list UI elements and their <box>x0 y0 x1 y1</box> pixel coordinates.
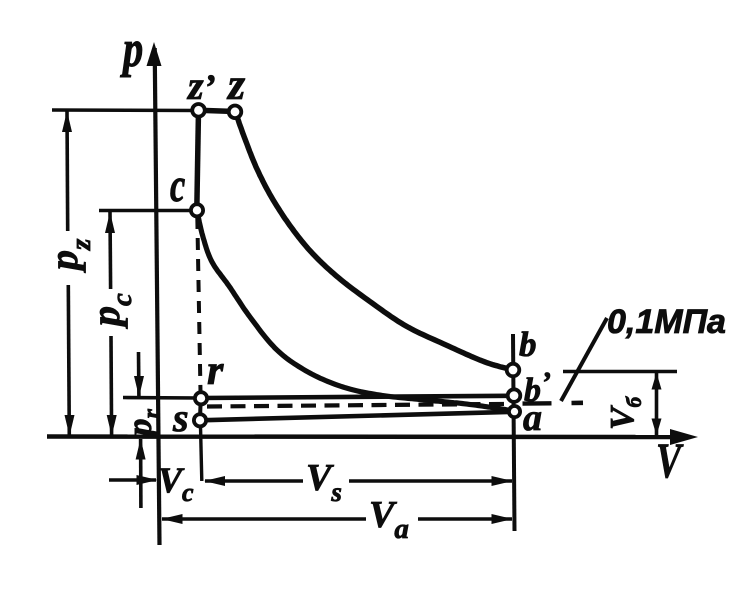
svg-text:r: r <box>207 348 224 394</box>
p axis <box>155 48 160 545</box>
pz dimension line lower segment <box>68 285 69 436</box>
pc dimension top arrowhead <box>105 212 115 233</box>
pr dimension up arrowhead <box>136 439 146 460</box>
exhaust line r to b' <box>201 396 514 398</box>
svg-text:z’: z’ <box>186 63 216 108</box>
pr dimension down arrowhead <box>134 376 144 397</box>
pc dimension line upper segment <box>108 212 112 289</box>
pz dimension bottom arrowhead <box>65 415 75 436</box>
Va dimension right arrowhead <box>492 514 513 524</box>
p axis arrowhead <box>147 42 162 66</box>
Vb extension line <box>563 370 677 374</box>
Vs dimension right arrowhead <box>492 476 513 486</box>
pz dimension top arrowhead <box>62 111 72 132</box>
Vc dimension left segment <box>109 478 156 482</box>
svg-text:a: a <box>523 397 542 439</box>
Va dimension line left part <box>162 517 366 521</box>
V axis arrowhead <box>670 429 698 445</box>
Vc dimension right-pointing arrowhead <box>137 475 158 485</box>
combustion line c to z' <box>197 110 199 210</box>
atmospheric line end dash <box>572 400 584 405</box>
svg-text:Vc: Vc <box>158 460 194 507</box>
svg-text:pz: pz <box>41 238 97 273</box>
svg-text:pr: pr <box>120 409 165 440</box>
Vs dimension line left part <box>205 479 303 483</box>
pr level line <box>123 396 201 400</box>
V axis <box>47 434 676 439</box>
svg-text:Vб: Vб <box>604 395 646 430</box>
point s <box>194 414 206 426</box>
atmospheric line dash between b' and a labels <box>523 401 552 406</box>
Vs dimension left arrowhead <box>204 476 225 486</box>
point b <box>507 364 520 377</box>
intake line s to a <box>200 412 515 421</box>
compression curve c to a <box>197 211 514 411</box>
pz level extension line <box>52 108 199 112</box>
svg-text:Va: Va <box>369 494 409 545</box>
pc dimension line lower segment <box>109 336 113 436</box>
leader line for 0.1MPa <box>561 318 607 401</box>
svg-text:s: s <box>172 395 189 440</box>
point z' <box>192 104 205 117</box>
point z <box>229 106 242 119</box>
b-b'-a vertical line <box>513 334 515 531</box>
pc level extension line <box>99 209 197 213</box>
vertical segment r to s <box>198 398 203 420</box>
pz dimension line upper segment <box>65 111 69 231</box>
Vc dashed vertical line <box>197 217 200 392</box>
point a <box>509 406 520 417</box>
Va dimension left arrowhead <box>162 514 183 524</box>
pc dimension bottom arrowhead <box>107 415 117 436</box>
svg-text:0,1МПа: 0,1МПа <box>607 303 726 341</box>
point r <box>195 392 207 404</box>
point c <box>191 204 203 216</box>
svg-text:p: p <box>120 22 144 79</box>
expansion curve z to b <box>235 111 513 370</box>
Va dimension line right part <box>418 517 512 521</box>
Vb dimension vertical line <box>655 373 659 435</box>
Vb dimension top arrowhead <box>652 373 662 390</box>
Vs dimension line right part <box>349 479 512 483</box>
Vb dimension bottom arrowhead <box>652 419 662 436</box>
vertical segment below s <box>201 426 202 481</box>
point b' <box>508 389 521 402</box>
combustion line z' to z <box>199 110 236 111</box>
svg-text:pc: pc <box>83 293 138 329</box>
svg-text:V: V <box>656 433 684 488</box>
svg-text:Vs: Vs <box>306 457 342 507</box>
svg-text:z: z <box>226 60 245 109</box>
atmospheric 0.1MPa dashed line <box>207 404 510 407</box>
pr dimension upper segment <box>137 352 141 396</box>
pr dimension lower segment <box>139 439 143 508</box>
svg-text:c: c <box>170 159 185 212</box>
svg-text:b: b <box>519 325 537 364</box>
